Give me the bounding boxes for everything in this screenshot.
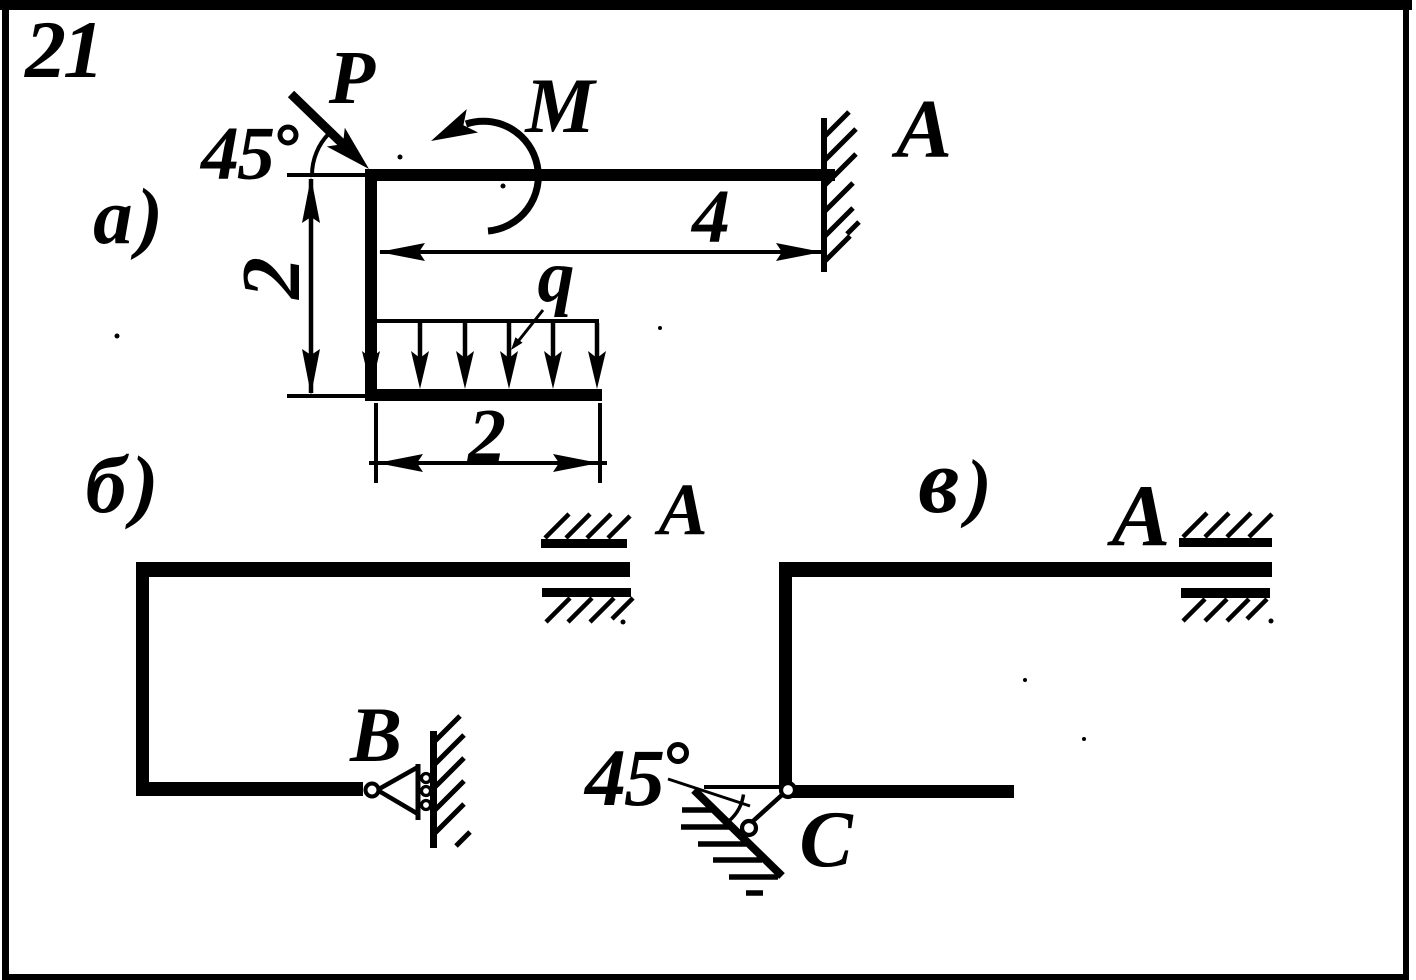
label 45 deg (diagram v) with leader <box>583 732 750 823</box>
svg-text:45: 45 <box>583 732 663 823</box>
svg-text:45: 45 <box>199 112 274 196</box>
left vertical member (diagram b) <box>136 562 149 796</box>
bottom beam (diagram a) <box>365 389 602 401</box>
label A (diagram a) <box>891 83 952 176</box>
distributed load arrows <box>362 323 606 389</box>
support C roller pin <box>742 821 756 835</box>
bottom beam (diagram b) <box>136 782 363 796</box>
svg-text:а): а) <box>93 174 163 261</box>
label 2 (horizontal dim) <box>467 394 506 478</box>
svg-text:A: A <box>654 469 707 551</box>
fixed wall support A (diagram a) <box>821 112 859 272</box>
inclined ground surface 45 deg <box>694 790 782 876</box>
dimension line 4 <box>379 243 822 261</box>
horizontal dimension 2 (below load) <box>369 403 607 483</box>
thin baseline extension left of corner <box>287 173 365 177</box>
label C <box>799 796 854 884</box>
roller support B triangle <box>379 764 431 820</box>
figure number 21 <box>24 4 101 95</box>
label P <box>328 36 376 120</box>
label b) <box>85 439 158 530</box>
top beam (diagram v) <box>779 562 1272 577</box>
svg-text:в): в) <box>918 430 991 532</box>
svg-text:P: P <box>328 36 376 120</box>
sliding support A (diagram b) <box>541 514 633 625</box>
left vertical member (diagram v) <box>779 562 792 790</box>
label q with leader <box>511 236 575 350</box>
support C top horizontal line <box>704 785 779 789</box>
top beam (diagram a) <box>365 169 835 181</box>
force P arrow <box>291 94 369 169</box>
label a) <box>93 174 163 261</box>
label A (diagram v) <box>1107 468 1171 565</box>
label 4 <box>690 175 730 259</box>
bottom beam (diagram v) <box>786 785 1014 798</box>
angle arc at C <box>730 795 744 821</box>
wall at support B <box>430 716 470 848</box>
label 45 deg (diagram a) <box>199 112 296 196</box>
svg-text:б): б) <box>85 439 158 530</box>
bottom extension line (corner, diagram a) <box>287 394 365 398</box>
label B <box>349 691 402 778</box>
svg-text:2: 2 <box>225 257 318 301</box>
svg-text:B: B <box>349 691 402 778</box>
svg-text:21: 21 <box>24 4 101 95</box>
svg-text:4: 4 <box>690 175 730 259</box>
distributed load q line <box>377 319 599 323</box>
top beam (diagram b) <box>136 562 630 577</box>
label A (diagram b) <box>654 469 707 551</box>
svg-text:C: C <box>799 796 854 884</box>
svg-text:q: q <box>538 236 575 318</box>
rotated label 2 (vertical dim) <box>225 257 318 301</box>
label v) <box>918 430 991 532</box>
svg-text:A: A <box>1107 468 1171 565</box>
support C link rod <box>752 794 783 822</box>
label M <box>523 62 597 149</box>
vertical dimension line 2 <box>302 177 320 395</box>
45 deg angle arc at corner <box>312 134 329 175</box>
svg-text:A: A <box>891 83 952 176</box>
ground hatches at C <box>681 810 778 893</box>
svg-text:2: 2 <box>467 394 506 478</box>
moment M arc arrow <box>431 109 538 231</box>
pin B circle <box>366 784 379 797</box>
pin C circle <box>781 783 795 797</box>
vertical frame member (diagram a) <box>365 169 377 397</box>
svg-text:M: M <box>523 62 597 149</box>
sliding support A (diagram v) <box>1179 513 1274 624</box>
